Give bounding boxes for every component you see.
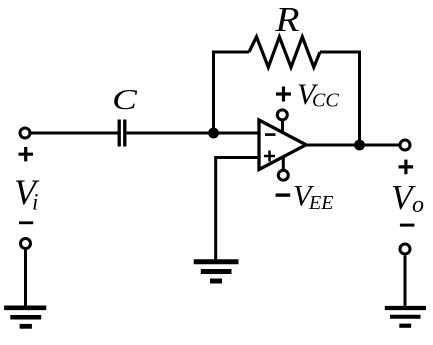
- node B (output junction dot): [354, 140, 365, 151]
- svg-text:CC: CC: [312, 90, 339, 112]
- VCC supply terminal: [277, 110, 287, 120]
- op-amp non-inverting pin mark: [264, 151, 275, 162]
- wire capacitor to op-amp inverting input: [127, 132, 260, 135]
- label Vi: [14, 172, 40, 215]
- label + (output polarity): [399, 160, 414, 175]
- svg-text:R: R: [274, 1, 299, 40]
- terminal Vi-: [21, 239, 31, 249]
- wire feedback left vertical: [214, 52, 250, 133]
- terminal Vo-: [400, 244, 410, 254]
- label - (output polarity): [400, 224, 415, 227]
- VCC supply stub: [281, 121, 284, 133]
- VEE supply terminal: [278, 170, 288, 180]
- svg-text:C: C: [112, 84, 138, 116]
- terminal Vi+: [20, 128, 30, 138]
- capacitor C: [119, 120, 125, 147]
- wire non-inverting input to ground: [216, 158, 259, 260]
- svg-text:EE: EE: [308, 192, 333, 214]
- terminal Vo+: [400, 140, 410, 150]
- ground (input): [4, 308, 46, 327]
- wire Vo- to ground: [404, 256, 407, 306]
- op-amp inverting pin mark: [265, 133, 276, 136]
- wire feedback right vertical: [320, 52, 360, 145]
- svg-text:o: o: [412, 192, 424, 218]
- label -VEE: [276, 180, 334, 215]
- ground (op-amp + input): [194, 262, 239, 281]
- wire op-amp output: [306, 144, 399, 147]
- ground (output): [385, 308, 426, 326]
- resistor R: [249, 37, 320, 67]
- svg-text:i: i: [32, 190, 38, 215]
- label - (input polarity): [19, 221, 33, 224]
- VEE supply stub: [282, 157, 285, 170]
- node A (junction dot): [208, 128, 219, 139]
- label Vo: [391, 178, 424, 218]
- label +VCC: [276, 78, 339, 112]
- wire Vi- to ground: [24, 250, 27, 306]
- label + (input polarity): [19, 147, 34, 161]
- op-amp U1: [259, 120, 306, 170]
- wire input to capacitor: [31, 132, 118, 135]
